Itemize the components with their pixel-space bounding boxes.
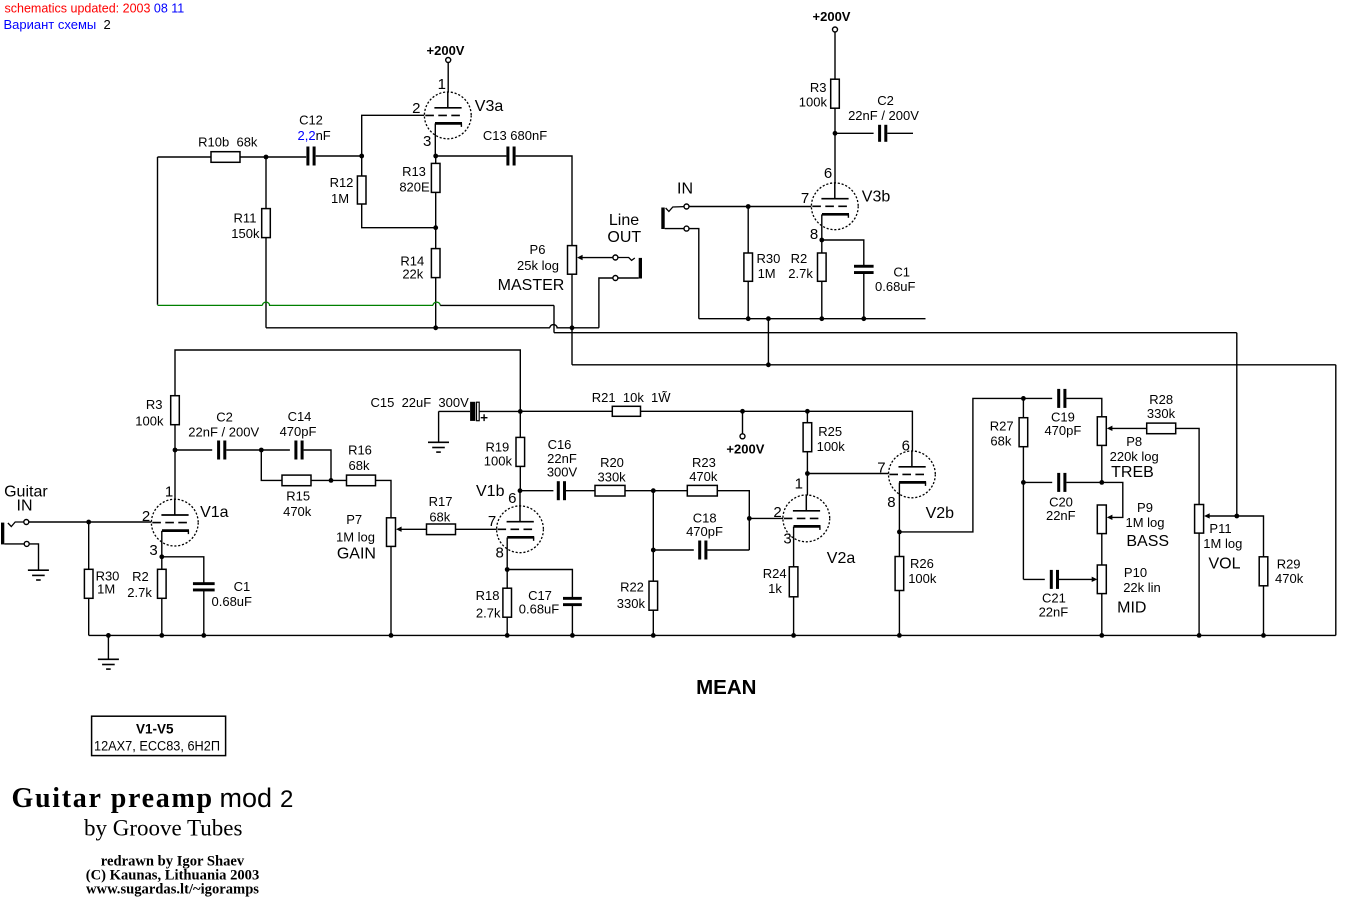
svg-text:100k: 100k: [484, 454, 513, 469]
junction R2 on bottom bus: [159, 633, 164, 638]
svg-text:Вариант схемы 2: Вариант схемы 2: [4, 17, 111, 32]
jack Guitar IN tip contact: [8, 522, 24, 527]
svg-text:1M log: 1M log: [1125, 515, 1164, 530]
wire C12 to grid node: [316, 155, 362, 157]
wire plate node down to V2a pin1: [806, 474, 808, 496]
svg-text:VOL: VOL: [1208, 555, 1240, 572]
wire C16 to R20: [566, 490, 595, 492]
wire R16 to P7 top: [376, 480, 392, 517]
wire to C19: [1023, 397, 1052, 399]
svg-text:R17: R17: [429, 494, 453, 509]
junction R3/C2 plate node V1a: [173, 448, 178, 453]
svg-text:2: 2: [280, 786, 293, 813]
capacitor C14: [294, 441, 303, 460]
resistor R26: [895, 557, 904, 591]
svg-text:C17: C17: [528, 588, 552, 603]
wire V1a cathode down: [161, 531, 163, 557]
svg-text:Line: Line: [609, 212, 639, 229]
resistor R29: [1259, 557, 1268, 586]
wire R20 to R23: [625, 490, 687, 492]
svg-text:IN: IN: [17, 497, 33, 514]
svg-text:6: 6: [508, 490, 516, 507]
wire tip to V1a pin2: [29, 521, 152, 523]
svg-text:R13: R13: [402, 164, 426, 179]
resistor R3: [171, 396, 180, 425]
wire +200V node to R25 node: [743, 410, 808, 412]
junction R25 node: [805, 409, 810, 414]
wire R14 to ground rail: [435, 278, 437, 328]
junction R20/R23/R22 node: [651, 488, 656, 493]
junction cathode node V1b: [505, 567, 510, 572]
wire cathode node to C1: [822, 240, 864, 266]
wire to R2: [161, 557, 163, 570]
wire C18 to grid node: [707, 549, 749, 551]
wire node A continues black: [440, 304, 554, 306]
wire IN sleeve down to stage ground bus: [689, 229, 699, 319]
svg-text:MEAN: MEAN: [696, 676, 756, 699]
svg-text:100k: 100k: [799, 95, 828, 110]
ground (input jack): [28, 570, 49, 580]
wire sleeve to jack body: [618, 277, 639, 279]
wire V1 supply rail: [175, 350, 520, 411]
wire R29 to bottom bus: [1263, 586, 1265, 636]
junction R22 on bottom bus: [651, 633, 656, 638]
svg-text:V1a: V1a: [200, 504, 229, 521]
wire rail B2 down right side: [1335, 365, 1337, 636]
wire IN tip to V3b pin7: [689, 206, 811, 208]
svg-text:3: 3: [783, 530, 791, 547]
svg-text:300V: 300V: [547, 465, 578, 480]
junction V3b ground drop on rail B2: [766, 362, 771, 367]
wire P10 bottom to bottom bus: [1101, 594, 1103, 636]
junction R18 on bottom bus: [505, 633, 510, 638]
svg-text:100k: 100k: [908, 571, 937, 586]
svg-text:V2a: V2a: [827, 550, 856, 567]
svg-text:R22: R22: [620, 580, 644, 595]
wire V3b cathode down: [821, 214, 823, 240]
svg-text:C1: C1: [893, 264, 910, 279]
junction +200V node: [740, 409, 745, 414]
triode tube V1a: [151, 499, 198, 546]
resistor R30: [744, 253, 753, 281]
svg-text:220k log: 220k log: [1110, 449, 1159, 464]
wire C15 to supply node: [480, 410, 521, 412]
junction C17 on bottom bus: [570, 633, 575, 638]
wire plate node to V1b pin6: [519, 491, 521, 506]
svg-text:R21 10k 1W̃: R21 10k 1W̃: [592, 390, 671, 405]
svg-text:0.68uF: 0.68uF: [519, 602, 560, 617]
wire C14 node down to R15: [261, 450, 282, 480]
wire R2 to bottom bus: [161, 598, 163, 635]
svg-text:R28: R28: [1149, 392, 1173, 407]
resistor R22: [649, 581, 658, 610]
svg-text:3: 3: [149, 542, 157, 559]
terminal +200V (V3a plate supply): [446, 58, 451, 63]
wire R25 to V2a plate node: [806, 452, 808, 474]
resistor R23: [687, 485, 717, 496]
wire R15 to R16: [311, 479, 347, 481]
svg-text:R2: R2: [791, 251, 808, 266]
junction V2a grid node: [747, 516, 752, 521]
junction P10 on bottom bus: [1099, 633, 1104, 638]
potentiometer P11: [1195, 505, 1204, 534]
wire V3b stage ground bus: [699, 318, 926, 320]
svg-text:R19: R19: [485, 439, 509, 454]
wire to +200V terminal: [742, 411, 744, 434]
svg-text:8: 8: [496, 544, 504, 561]
wire Line OUT sleeve to ground rail: [599, 278, 613, 328]
capacitor C1: [193, 582, 215, 591]
junction bus drop node: [766, 316, 771, 321]
wire node to R27: [1022, 398, 1024, 417]
junction cathode/R2/C1 node: [819, 238, 824, 243]
svg-text:820E: 820E: [399, 179, 430, 194]
svg-text:7: 7: [488, 513, 496, 530]
wire to C14: [261, 449, 290, 451]
capacitor C1: [854, 265, 874, 274]
resistor R30: [84, 569, 93, 598]
wire R13 to node: [435, 192, 437, 227]
resistor R15: [282, 475, 311, 486]
wire C2 out: [887, 132, 913, 134]
wire C2 to C14 node: [226, 449, 261, 451]
capacitor C15 (electrolytic): [470, 402, 479, 421]
wire P11 bottom to bottom bus: [1198, 533, 1200, 635]
svg-text:R26: R26: [910, 556, 934, 571]
svg-text:0.68uF: 0.68uF: [875, 279, 916, 294]
svg-text:+200V: +200V: [726, 442, 764, 457]
svg-text:C16: C16: [548, 437, 572, 452]
wire left riser (node A): [157, 157, 159, 305]
svg-text:12AX7, ECC83, 6Н2П: 12AX7, ECC83, 6Н2П: [94, 738, 220, 753]
wire C19 to P8 top: [1066, 398, 1101, 416]
resistor R28: [1147, 423, 1176, 434]
wire R11 to ground rail: [265, 238, 267, 328]
svg-text:P10: P10: [1124, 565, 1147, 580]
resistor R21: [612, 406, 640, 416]
svg-text:OUT: OUT: [607, 229, 641, 246]
resistor R3: [831, 79, 840, 108]
junction V2b cathode node: [897, 530, 902, 535]
wire to R19: [519, 411, 521, 437]
svg-text:25k log: 25k log: [517, 258, 559, 273]
junction R14 on rail B1: [433, 325, 438, 330]
wire plate node to C2: [175, 449, 212, 451]
junction C20 left node: [1021, 480, 1026, 485]
capacitor C17: [563, 597, 582, 606]
junction P6 bottom on rail B1: [570, 325, 575, 330]
wire jack body to sleeve: [4, 543, 24, 545]
wire bottom common bus: [89, 634, 1336, 636]
wire to R2: [821, 240, 823, 253]
resistor R16: [347, 475, 376, 486]
wire R22 to bottom bus: [652, 610, 654, 635]
wire C15 to ground: [438, 411, 440, 442]
wire R26 to bottom bus: [898, 591, 900, 636]
wire cathode node to C1: [162, 557, 204, 583]
svg-text:Guitar preamp: Guitar preamp: [12, 783, 214, 814]
svg-text:V3a: V3a: [475, 98, 504, 115]
junction R29 on bottom bus: [1261, 633, 1266, 638]
wiper arrow P8: [1107, 426, 1147, 431]
wire grid node to R30: [747, 207, 749, 254]
svg-text:R3: R3: [810, 80, 827, 95]
svg-text:8: 8: [810, 226, 818, 243]
svg-text:3: 3: [423, 133, 431, 150]
resistor R20: [595, 485, 625, 496]
wire to R26: [898, 532, 900, 557]
svg-text:6: 6: [902, 438, 910, 455]
wire R17 to V1b pin7: [456, 528, 497, 530]
wire R24 to bottom bus: [793, 597, 795, 636]
svg-text:P8: P8: [1126, 434, 1142, 449]
junction V3a cathode node: [433, 154, 438, 159]
wire R12 bottom to cathode divider node: [362, 204, 436, 228]
wire wiper node to R29: [1237, 516, 1264, 557]
wire to R12: [361, 156, 363, 176]
junction P11 wiper node A: [1234, 514, 1239, 519]
wire R23 to V2a grid node: [717, 491, 749, 550]
wire R21 to +200V node: [641, 410, 743, 412]
svg-text:22nF / 200V: 22nF / 200V: [188, 424, 259, 439]
junction grid/R30 node V1a: [86, 520, 91, 525]
svg-text:TREB: TREB: [1111, 464, 1154, 481]
wire bus to main ground: [107, 635, 109, 659]
svg-text:+200V: +200V: [427, 43, 465, 58]
capacitor C12: [306, 147, 315, 166]
wire R30 to bottom bus: [88, 598, 90, 635]
jack sleeve terminal IN: [684, 226, 689, 231]
triode tube V2a: [783, 495, 830, 542]
resistor R19: [516, 437, 525, 466]
svg-text:22nF: 22nF: [1046, 508, 1076, 523]
capacitor C13: [506, 147, 515, 166]
wire supply to V2b pin6: [807, 411, 912, 451]
junction C18 left node: [651, 548, 656, 553]
wire R25 node to R25: [806, 411, 808, 422]
junction P7 on bottom bus: [389, 633, 394, 638]
svg-text:330k: 330k: [617, 596, 646, 611]
jack tip terminal Guitar IN: [24, 520, 29, 525]
wire R2 to stage ground bus: [821, 281, 823, 318]
junction R25/V2a plate node: [805, 471, 810, 476]
resistor R18: [503, 588, 512, 617]
wire plate node down to V1a pin1: [174, 450, 176, 500]
svg-text:C2: C2: [216, 410, 233, 425]
svg-text:6: 6: [824, 165, 832, 182]
wire to R11: [265, 157, 267, 209]
wire rail B1 down to rail B2: [571, 328, 573, 365]
svg-text:7: 7: [801, 190, 809, 207]
jack tip terminal IN: [684, 204, 689, 209]
jack sleeve terminal Line OUT: [613, 276, 618, 281]
wire C1 to bottom bus: [203, 590, 205, 635]
svg-text:R12: R12: [330, 175, 354, 190]
wire grid node to V2a pin2: [749, 517, 783, 519]
svg-text:8: 8: [887, 494, 895, 511]
tube list box V1-V5: [92, 716, 226, 755]
svg-text:1M log: 1M log: [1203, 536, 1242, 551]
svg-text:R16: R16: [348, 442, 372, 457]
svg-text:100k: 100k: [817, 439, 846, 454]
svg-text:470pF: 470pF: [1044, 423, 1081, 438]
wire R18 to bottom bus: [506, 617, 508, 635]
wire cathode node to C13: [436, 155, 507, 157]
wire green feedback line (node A): [158, 302, 441, 305]
svg-text:schematics updated: 2003 08 11: schematics updated: 2003 08 11: [5, 2, 185, 16]
svg-text:mod: mod: [220, 783, 273, 813]
svg-text:470k: 470k: [1275, 571, 1304, 586]
svg-text:1M: 1M: [331, 191, 349, 206]
svg-text:IN: IN: [677, 180, 693, 197]
capacitor C19: [1057, 389, 1066, 408]
triode tube V2b: [889, 451, 936, 498]
wiper arrow P6: [577, 255, 613, 260]
junction R2 on bus: [819, 316, 824, 321]
svg-text:MID: MID: [1117, 599, 1146, 616]
wire C1 to stage ground bus: [863, 273, 865, 319]
wire stage ground bus down to rail B2: [767, 319, 769, 365]
svg-text:2,2nF: 2,2nF: [298, 128, 331, 143]
junction grid/R30 node: [746, 204, 751, 209]
svg-text:R2: R2: [132, 569, 149, 584]
wire R3 to plate node: [834, 108, 836, 133]
wire sleeve to input ground: [29, 544, 38, 570]
terminal +200V (main supply): [740, 434, 745, 439]
svg-text:MASTER: MASTER: [498, 277, 565, 294]
junction supply node V1: [518, 409, 523, 414]
junction R26 on bottom bus: [897, 633, 902, 638]
svg-text:470k: 470k: [689, 469, 718, 484]
jack Guitar IN body: [1, 523, 4, 545]
junction C2/C14/R15 node: [259, 448, 264, 453]
resistor R12: [357, 176, 366, 204]
wire R3 to V1a plate node: [174, 425, 176, 450]
jack IN tip contact: [666, 207, 685, 212]
capacitor C18: [698, 541, 707, 560]
capacitor C21: [1050, 570, 1059, 589]
ground (C15): [428, 442, 449, 452]
wire to R18: [506, 570, 508, 589]
wire V1b cathode down: [506, 538, 508, 570]
svg-text:470k: 470k: [283, 504, 312, 519]
svg-text:C14: C14: [288, 409, 312, 424]
wire to R13: [435, 156, 437, 163]
junction cathode node V1a: [159, 554, 164, 559]
svg-text:R11: R11: [234, 211, 257, 226]
wire grid node up to V3a pin2: [362, 115, 425, 156]
svg-text:22k: 22k: [402, 266, 423, 281]
svg-text:www.sugardas.lt/~igoramps: www.sugardas.lt/~igoramps: [86, 881, 259, 897]
wire V2b cathode down: [898, 483, 900, 532]
svg-text:330k: 330k: [1147, 406, 1176, 421]
junction R30 on bus: [746, 316, 751, 321]
wire plate node down to V3b pin6: [834, 133, 836, 183]
svg-text:R29: R29: [1277, 557, 1301, 572]
wire to R14: [435, 228, 437, 249]
svg-text:P6: P6: [530, 242, 546, 257]
wire supply node to R21: [520, 410, 612, 412]
svg-text:C1: C1: [234, 579, 251, 594]
svg-text:2.7k: 2.7k: [476, 605, 501, 620]
resistor R11: [262, 209, 271, 238]
wire to C20: [1023, 481, 1052, 483]
junction tone stack top node: [1021, 396, 1026, 401]
wire cathode to tone stack top: [899, 398, 1023, 532]
jack IN body: [661, 208, 664, 230]
junction C1 on bus: [861, 316, 866, 321]
svg-text:BASS: BASS: [1126, 533, 1169, 550]
wire ground to C15: [439, 410, 470, 412]
svg-text:V1b: V1b: [476, 483, 505, 500]
credits: [86, 854, 260, 898]
svg-text:R15: R15: [286, 488, 310, 503]
svg-text:0.68uF: 0.68uF: [212, 594, 253, 609]
junction R15/C14/R16 node: [329, 478, 334, 483]
svg-text:68k: 68k: [429, 510, 450, 525]
svg-text:+200V: +200V: [813, 9, 851, 24]
junction R19/C16/plate node: [518, 488, 523, 493]
wire jack body to sleeve: [665, 228, 684, 230]
potentiometer P7: [387, 518, 396, 547]
wire grid node to R30: [88, 522, 90, 569]
wire cathode node to C17: [507, 570, 572, 599]
resistor R24: [789, 567, 798, 597]
svg-text:22nF: 22nF: [1039, 605, 1069, 620]
potentiometer P8: [1097, 417, 1106, 446]
capacitor C2: [878, 125, 887, 142]
resistor R10b: [211, 152, 240, 163]
svg-text:by Groove Tubes: by Groove Tubes: [84, 815, 243, 840]
wire C20 to P8 bottom node: [1066, 481, 1101, 483]
wire node A down: [553, 305, 555, 332]
wire P6 bottom to ground rail: [571, 274, 573, 328]
junction R3/C2/plate node: [833, 131, 838, 136]
wire C14 to R15 right node: [304, 450, 331, 480]
ground (main): [98, 659, 119, 669]
potentiometer P10: [1097, 565, 1106, 594]
label + (C15 polarity): [481, 414, 488, 421]
svg-text:V3b: V3b: [862, 189, 891, 206]
terminal +200V (V3b supply): [833, 27, 838, 32]
svg-text:68k: 68k: [349, 458, 370, 473]
wire C20 node down to C21: [1022, 482, 1024, 579]
potentiometer P9: [1097, 505, 1106, 534]
svg-text:C12: C12: [299, 113, 323, 128]
svg-text:R10b 68k: R10b 68k: [198, 135, 258, 150]
wiper arrow P11: [1204, 513, 1237, 518]
junction P8/P9 node: [1099, 480, 1104, 485]
jack tip terminal Line OUT: [613, 255, 618, 260]
svg-text:100k: 100k: [135, 413, 164, 428]
svg-text:1: 1: [795, 475, 803, 492]
resistor R13: [431, 163, 440, 192]
junction R13/R14 node: [433, 225, 438, 230]
wire plate node to C2: [835, 132, 874, 134]
svg-text:330k: 330k: [597, 469, 626, 484]
svg-text:470pF: 470pF: [280, 424, 317, 439]
wire plate supply to V3a pin1: [447, 63, 449, 93]
svg-text:1k: 1k: [768, 581, 782, 596]
svg-text:470pF: 470pF: [686, 524, 723, 539]
svg-text:22nF / 200V: 22nF / 200V: [848, 108, 919, 123]
capacitor C2: [217, 441, 226, 460]
triode tube V3b: [811, 182, 858, 229]
wire node A down to P11 wiper: [1236, 333, 1238, 516]
svg-text:R18: R18: [476, 588, 500, 603]
junction R24 on bottom bus: [791, 633, 796, 638]
wire ground rail B2: [572, 364, 1336, 366]
